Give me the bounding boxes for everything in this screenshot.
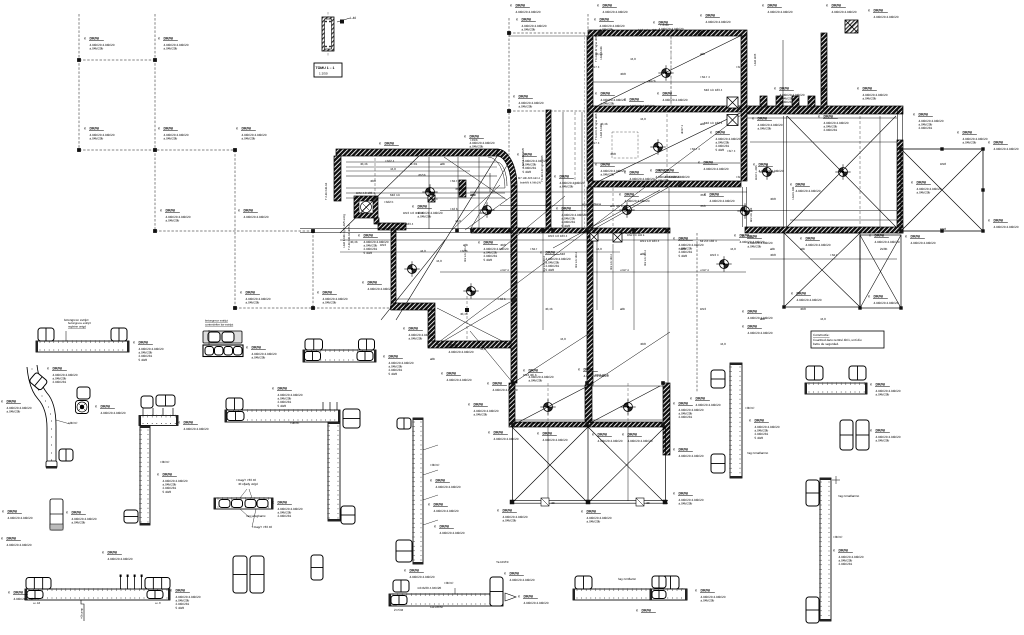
band right wall xyxy=(663,383,670,455)
svg-text:a.04b/20b: a.04b/20b xyxy=(587,520,601,524)
detail beam B14 xyxy=(389,594,503,606)
X panel tick xyxy=(981,147,984,150)
svg-text:4.04b/20 4.04b/20: 4.04b/20 4.04b/20 xyxy=(875,240,900,244)
label xyxy=(428,503,459,513)
svg-text:a0b 40/ b: a0b 40/ b xyxy=(610,204,623,208)
svg-text:DR/NI: DR/NI xyxy=(252,346,262,350)
svg-text:40 ofjady ut/gd: 40 ofjady ut/gd xyxy=(238,482,258,486)
room left wall xyxy=(587,36,593,181)
B13 leaders xyxy=(423,445,438,450)
svg-text:1:1/50: 1:1/50 xyxy=(319,72,328,76)
svg-text:DR/NI: DR/NI xyxy=(780,87,790,91)
label xyxy=(84,127,115,141)
X panel NE diag1 xyxy=(901,149,983,231)
label xyxy=(540,251,571,272)
svg-text:+N17 4: +N17 4 xyxy=(620,269,629,272)
svg-text:bsieh/N 4.04b1/N: bsieh/N 4.04b1/N xyxy=(520,182,541,185)
svg-text:a0b: a0b xyxy=(800,247,805,251)
svg-text:DIM 4.0 183 4: DIM 4.0 183 4 xyxy=(356,191,375,195)
column axis symbol xyxy=(662,69,671,78)
band tick xyxy=(455,229,459,233)
label xyxy=(272,387,303,408)
beam schedule line 2 xyxy=(346,192,505,194)
svg-text:DR/NI: DR/NI xyxy=(630,98,640,102)
svg-text:183 4: 183 4 xyxy=(430,197,438,201)
svg-text:4.04b/20 4.04b/20: 4.04b/20 4.04b/20 xyxy=(659,27,684,31)
svg-text:4.04b/20 4.04b/20: 4.04b/20 4.04b/20 xyxy=(630,104,655,108)
detail column pair B18 xyxy=(840,420,853,450)
svg-text:4.04b/20 4.04b/20: 4.04b/20 4.04b/20 xyxy=(244,215,269,219)
wall stub vertical NE xyxy=(821,33,827,108)
svg-text:a0b: a0b xyxy=(470,193,475,197)
svg-text:MI2 4.b 183 4: MI2 4.b 183 4 xyxy=(510,242,513,258)
label xyxy=(762,4,793,14)
svg-text:4.04b/20 4.04b/20: 4.04b/20 4.04b/20 xyxy=(665,175,690,179)
column axis symbol xyxy=(483,206,492,215)
svg-text:a.04b/20b: a.04b/20b xyxy=(522,28,536,32)
svg-text:DR/NI: DR/NI xyxy=(628,433,638,437)
svg-text:DR/NI: DR/NI xyxy=(598,433,608,437)
X panel S axis dashed xyxy=(859,235,861,307)
corridor line v1 xyxy=(562,112,564,228)
label xyxy=(650,169,681,183)
upper-left room hline xyxy=(346,175,497,177)
wall face line c xyxy=(897,110,899,140)
label xyxy=(673,448,704,458)
X panel tick xyxy=(899,229,902,232)
grid axis D vertical xyxy=(311,231,313,309)
svg-text:DR/NI: DR/NI xyxy=(385,142,395,146)
svg-text:DR/NI: DR/NI xyxy=(600,18,610,22)
svg-text:MI2 4.b 183 4: MI2 4.b 183 4 xyxy=(575,252,578,268)
upper-left room vline a xyxy=(428,157,430,229)
label xyxy=(700,14,731,24)
svg-text:4.04b/20 4.04b/20: 4.04b/20 4.04b/20 xyxy=(184,427,209,431)
dim tick xyxy=(598,31,602,35)
label xyxy=(523,369,554,383)
svg-text:2.04b/2b1: 2.04b/2b1 xyxy=(53,380,67,384)
svg-text:45/5b: 45/5b xyxy=(455,187,463,191)
svg-text:DR/NI: DR/NI xyxy=(716,131,726,135)
bay1 mid v xyxy=(547,427,549,501)
svg-text:a.04b/20b: a.04b/20b xyxy=(601,102,615,106)
svg-text:DR/NI: DR/NI xyxy=(364,234,374,238)
band tick xyxy=(661,423,665,427)
svg-text:+0b/m²: +0b/m² xyxy=(430,463,439,467)
grid axis 5 horizontal xyxy=(509,31,587,33)
diag lattice b xyxy=(465,196,512,230)
svg-text:44,0: 44,0 xyxy=(480,347,486,351)
svg-text:DR/NI: DR/NI xyxy=(164,37,174,41)
svg-text:DR/NI: DR/NI xyxy=(278,387,288,391)
svg-text:hay nnnflamn: hay nnnflamn xyxy=(618,577,636,581)
dim tick xyxy=(678,182,682,186)
svg-text:a.04b/20b: a.04b/20b xyxy=(242,137,256,141)
label xyxy=(430,479,461,489)
wall left vertical xyxy=(334,156,341,201)
label xyxy=(957,131,988,145)
svg-text:DR/NI: DR/NI xyxy=(679,402,689,406)
column axis symbol xyxy=(408,265,417,274)
bay left chord xyxy=(512,427,514,503)
svg-text:40,4b: 40,4b xyxy=(595,52,603,56)
svg-text:+b22 b: +b22 b xyxy=(384,200,394,204)
svg-text:44,0: 44,0 xyxy=(455,219,461,223)
grid node xyxy=(507,109,511,113)
svg-text:DR/NI: DR/NI xyxy=(524,595,534,599)
svg-text:+N17 4: +N17 4 xyxy=(500,269,509,272)
svg-text:5 40/8: 5 40/8 xyxy=(523,170,532,174)
svg-text:a.04b/20b: a.04b/20b xyxy=(90,137,104,141)
svg-text:5 40/8: 5 40/8 xyxy=(716,148,725,152)
svg-text:40/: 40/ xyxy=(646,501,650,505)
svg-text:4.04b/20 4.04b/20: 4.04b/20 4.04b/20 xyxy=(911,241,936,245)
band tick xyxy=(470,229,474,233)
detail curved beam xyxy=(27,367,47,463)
svg-text:+b22 4: +b22 4 xyxy=(385,159,395,163)
L-beam dowels xyxy=(322,402,324,410)
label xyxy=(826,4,857,14)
column axis symbol xyxy=(654,143,663,152)
dim tick xyxy=(547,138,551,142)
label xyxy=(102,551,133,561)
label xyxy=(818,115,849,133)
label xyxy=(170,589,201,610)
svg-text:a.04b/20b: a.04b/20b xyxy=(72,521,86,525)
svg-text:betongrece estrijct: betongrece estrijct xyxy=(64,318,89,322)
svg-text:4.04b/20 4.04b/20: 4.04b/20 4.04b/20 xyxy=(410,575,435,579)
label xyxy=(272,501,303,519)
grid axis C vertical xyxy=(233,150,235,309)
svg-text:a.04b/20b: a.04b/20b xyxy=(470,145,484,149)
svg-text:40,4b: 40,4b xyxy=(545,307,553,311)
east corridor wall xyxy=(747,106,903,114)
svg-text:DR/NI: DR/NI xyxy=(543,432,553,436)
label xyxy=(774,87,805,105)
detail V-beam B19 xyxy=(820,478,831,621)
wall right vertical xyxy=(897,140,903,233)
label xyxy=(911,181,942,195)
grid node xyxy=(233,306,237,310)
label xyxy=(592,433,623,443)
bay2 diag2 xyxy=(588,427,665,503)
svg-text:4.04b/20 4.04b/20: 4.04b/20 4.04b/20 xyxy=(108,557,133,561)
svg-text:DN3 40/ b: DN3 40/ b xyxy=(595,373,609,377)
svg-text:240/ Disposs: 240/ Disposs xyxy=(598,421,616,425)
label xyxy=(734,234,765,244)
label xyxy=(478,241,509,262)
svg-text:+0b/m²: +0b/m² xyxy=(444,581,453,585)
svg-text:MI2 4.b 183 4: MI2 4.b 183 4 xyxy=(610,254,613,270)
X panel NE frame xyxy=(901,149,983,231)
svg-text:MI2 4.b 183: MI2 4.b 183 xyxy=(750,207,753,222)
svg-text:2.04b/2b1: 2.04b/2b1 xyxy=(780,100,794,104)
svg-text:+b/7 4: +b/7 4 xyxy=(736,65,745,69)
svg-text:40/ NI/ Disposs: 40/ NI/ Disposs xyxy=(760,227,781,231)
stair shaft xyxy=(354,196,378,218)
svg-text:DR/NI: DR/NI xyxy=(529,369,539,373)
label xyxy=(379,142,399,146)
svg-text:40/8: 40/8 xyxy=(545,202,551,206)
svg-text:+0b/m²: +0b/m² xyxy=(833,535,842,539)
svg-text:5 40/8: 5 40/8 xyxy=(679,254,688,258)
step wall v2 xyxy=(428,310,435,347)
B7 drop line xyxy=(81,600,84,621)
svg-text:4.04b/20 4.04b/20: 4.04b/20 4.04b/20 xyxy=(663,98,688,102)
thin v634 xyxy=(633,233,635,330)
step wall h1 xyxy=(391,303,435,310)
dim tick xyxy=(618,107,622,111)
X panel S frame xyxy=(860,235,901,308)
svg-text:a.04b/20b: a.04b/20b xyxy=(601,173,615,177)
svg-text:DR/NI: DR/NI xyxy=(806,237,816,241)
label xyxy=(905,235,936,245)
label xyxy=(581,510,612,524)
svg-text:DR/NI: DR/NI xyxy=(418,205,428,209)
label xyxy=(857,87,888,101)
wall notch jamb xyxy=(792,96,799,107)
svg-text:T b+bl b.bf nghe 40/5: T b+bl b.bf nghe 40/5 xyxy=(594,35,598,62)
label xyxy=(595,92,626,106)
column axis symbol xyxy=(544,403,553,412)
svg-text:40/7b: 40/7b xyxy=(648,79,656,83)
svg-text:a+.0: a+.0 xyxy=(155,601,161,605)
svg-text:DR/NI: DR/NI xyxy=(184,421,194,425)
svg-text:4.04b/20 4.04b/20: 4.04b/20 4.04b/20 xyxy=(832,10,857,14)
dim tick xyxy=(658,31,662,36)
small x block b xyxy=(613,233,622,242)
svg-text:DR/NI: DR/NI xyxy=(663,92,673,96)
svg-text:4.04b/20 4.04b/20: 4.04b/20 4.04b/20 xyxy=(434,509,459,513)
svg-text:DN2 1.b 183 4: DN2 1.b 183 4 xyxy=(627,234,645,237)
upper-left room hline c xyxy=(346,166,497,168)
wall notch jamb xyxy=(776,96,783,107)
wall mid-left vertical long xyxy=(511,186,517,383)
svg-text:DN1: DN1 xyxy=(782,107,788,111)
room1 axis dashed b xyxy=(670,36,672,106)
svg-text:DR/NI: DR/NI xyxy=(874,295,884,299)
detail beam B7 xyxy=(25,589,170,600)
wall bottom-right horizontal xyxy=(745,227,903,233)
svg-text:4.04b/20 4.04b/20: 4.04b/20 4.04b/20 xyxy=(493,388,518,392)
label xyxy=(464,135,495,149)
bay1 diag2 xyxy=(512,427,588,503)
svg-text:+0b/m²: +0b/m² xyxy=(160,460,169,464)
label xyxy=(95,405,126,415)
svg-text:4.04b/20 4.04b/20: 4.04b/20 4.04b/20 xyxy=(436,485,461,489)
beam band center xyxy=(471,228,670,233)
dim tick xyxy=(512,298,516,302)
column axis symbol xyxy=(763,168,772,177)
wall mid vertical xyxy=(391,230,396,308)
svg-text:a.04b/20b: a.04b/20b xyxy=(503,519,517,523)
svg-text:DR/NI: DR/NI xyxy=(368,281,378,285)
svg-text:a.04b/20b: a.04b/20b xyxy=(409,337,423,341)
X panel S2 diag2 xyxy=(784,233,860,307)
thin line y272 xyxy=(440,271,746,273)
svg-text:4.04b/20 4.04b/20: 4.04b/20 4.04b/20 xyxy=(543,438,568,442)
svg-text:4.04b/20 4.04b/20: 4.04b/20 4.04b/20 xyxy=(704,167,729,171)
label xyxy=(516,18,547,32)
X panel S2 diag1 xyxy=(784,233,860,307)
svg-text:a.04b/20b: a.04b/20b xyxy=(90,47,104,51)
detail flag xyxy=(337,18,350,22)
band up diag1 xyxy=(513,331,593,383)
svg-text:DR/NI: DR/NI xyxy=(963,131,973,135)
detail beam B15 xyxy=(573,589,687,600)
label xyxy=(870,383,901,397)
svg-text:+b/7 4: +b/7 4 xyxy=(591,141,600,145)
svg-text:DR/NI: DR/NI xyxy=(90,37,100,41)
svg-text:4.04b/20 4.04b/20: 4.04b/20 4.04b/20 xyxy=(598,439,623,443)
wall notch jamb xyxy=(760,96,767,107)
thin line y36 xyxy=(509,35,587,37)
svg-text:+N17 4: +N17 4 xyxy=(700,269,709,272)
title box xyxy=(314,63,342,77)
label xyxy=(657,92,688,102)
label xyxy=(742,235,773,249)
svg-text:MI2 4.b: MI2 4.b xyxy=(390,193,400,197)
svg-text:+b/7 4: +b/7 4 xyxy=(736,175,745,179)
svg-text:DN8: DN8 xyxy=(940,162,946,166)
svg-text:DR/NI: DR/NI xyxy=(90,127,100,131)
dim tick xyxy=(512,358,516,362)
svg-text:2.04b/2b1: 2.04b/2b1 xyxy=(839,562,853,566)
thin v669 xyxy=(668,188,670,228)
dim tick xyxy=(512,218,516,222)
label xyxy=(791,292,822,302)
corridor wall vertical xyxy=(546,110,551,229)
detail beam B1 xyxy=(36,341,129,352)
wall center vertical long xyxy=(587,233,593,385)
svg-text:a.04b/20b: a.04b/20b xyxy=(679,502,693,506)
band tick xyxy=(585,423,589,427)
long thin line y210 xyxy=(440,210,897,212)
dim tick xyxy=(335,178,339,182)
svg-text:DR/NI: DR/NI xyxy=(748,325,758,329)
X panel tick xyxy=(940,229,943,232)
svg-text:DR/NI: DR/NI xyxy=(630,171,640,175)
label xyxy=(619,193,650,203)
label xyxy=(800,237,831,247)
thin v597 xyxy=(596,233,598,310)
svg-text:5 40/8: 5 40/8 xyxy=(364,251,373,255)
svg-text:4.04b/20 4.04b/20: 4.04b/20 4.04b/20 xyxy=(447,378,472,382)
grid axis 3 horizontal xyxy=(155,229,313,231)
detail beam B12 xyxy=(303,350,376,362)
svg-text:4.04b/20 4.04b/20: 4.04b/20 4.04b/20 xyxy=(994,225,1019,229)
svg-text:MI 2.b 183 4: MI 2.b 183 4 xyxy=(700,239,717,243)
label xyxy=(653,21,684,31)
bay mid chord xyxy=(587,427,589,503)
svg-text:DR/NI: DR/NI xyxy=(706,14,716,18)
B1 flag xyxy=(65,331,67,341)
svg-text:4.04b/20 4.04b/20: 4.04b/20 4.04b/20 xyxy=(628,439,653,443)
detail V-beam B16 xyxy=(730,363,742,478)
tick xyxy=(858,306,861,309)
svg-text:DN3 4: DN3 4 xyxy=(710,253,719,257)
grid node xyxy=(233,148,237,152)
svg-text:DR/NI: DR/NI xyxy=(824,115,834,119)
band tick xyxy=(541,229,545,233)
svg-text:DR/NI: DR/NI xyxy=(748,310,758,314)
room bottom wall xyxy=(588,181,741,187)
label xyxy=(988,219,1019,229)
grid axis 6 horizontal xyxy=(509,109,585,111)
dim tick xyxy=(588,328,592,332)
svg-text:b.bf ngbo 40/5: b.bf ngbo 40/5 xyxy=(638,28,658,32)
svg-text:DN3 4.0 183 4: DN3 4.0 183 4 xyxy=(548,234,568,238)
svg-text:a.04b/20b: a.04b/20b xyxy=(246,301,260,305)
svg-text:DR/NI: DR/NI xyxy=(625,193,635,197)
label xyxy=(578,368,609,378)
svg-text:DR/NI: DR/NI xyxy=(72,511,82,515)
svg-text:DN3: DN3 xyxy=(700,307,706,311)
bay1 diag1 xyxy=(512,427,588,503)
svg-text:5 40/8: 5 40/8 xyxy=(176,606,185,610)
svg-text:a0b: a0b xyxy=(500,227,505,231)
svg-text:DR/NI: DR/NI xyxy=(434,503,444,507)
svg-text:+N17 4: +N17 4 xyxy=(450,179,460,183)
svg-text:I 4x8 b.04b nghc 40/5 estrg: I 4x8 b.04b nghc 40/5 estrg xyxy=(342,214,346,248)
svg-text:+N17: +N17 xyxy=(830,253,838,257)
svg-text:Tag nnnaflamne: Tag nnnaflamne xyxy=(747,451,769,455)
wall notch jamb xyxy=(808,96,815,107)
small x block a xyxy=(590,233,598,241)
svg-text:DR/NI: DR/NI xyxy=(447,372,457,376)
dim tick xyxy=(898,208,902,212)
svg-text:DR/NI: DR/NI xyxy=(710,193,720,197)
short diag c2 xyxy=(437,302,510,345)
band top line xyxy=(513,385,663,387)
chord tick box a xyxy=(541,498,549,506)
svg-text:DR/NI: DR/NI xyxy=(587,510,597,514)
svg-text:DR/NI: DR/NI xyxy=(679,492,689,496)
column tick v490 xyxy=(489,173,491,192)
svg-text:DR/NI: DR/NI xyxy=(755,419,765,423)
band tick xyxy=(508,229,512,233)
bay node xyxy=(586,500,591,505)
detail small column B6 xyxy=(50,499,63,530)
label xyxy=(160,209,191,223)
label xyxy=(443,344,474,354)
room SE diag1 xyxy=(787,116,896,227)
svg-text:5 40/8: 5 40/8 xyxy=(139,358,148,362)
svg-text:4.04b/20 4.04b/20: 4.04b/20 4.04b/20 xyxy=(14,597,39,601)
svg-text:TOMU 1 – 1: TOMU 1 – 1 xyxy=(316,66,335,70)
svg-text:a.04b/20b: a.04b/20b xyxy=(252,356,266,360)
label xyxy=(673,237,704,258)
svg-text:DR/NI: DR/NI xyxy=(522,18,532,22)
svg-text:4.04b/20 4.04b/20: 4.04b/20 4.04b/20 xyxy=(524,601,549,605)
step wall h0 xyxy=(378,223,406,230)
long thin line y205 xyxy=(500,205,746,207)
column block xyxy=(459,180,466,197)
label xyxy=(468,403,499,417)
detail column section B10b xyxy=(311,555,323,580)
svg-text:DR/NI: DR/NI xyxy=(14,591,24,595)
band tick xyxy=(551,229,555,233)
diag lattice a xyxy=(452,185,500,230)
label xyxy=(497,509,528,523)
svg-text:T b+bl b.bf nghe 40/5: T b+bl b.bf nghe 40/5 xyxy=(594,113,598,140)
tick xyxy=(899,306,902,309)
grid node xyxy=(153,148,157,152)
dim tick xyxy=(458,150,462,154)
grid node xyxy=(77,148,81,152)
svg-text:DN3 4.0 4N3 4: DN3 4.0 4N3 4 xyxy=(403,211,423,215)
svg-text:DR/NI: DR/NI xyxy=(166,209,176,213)
